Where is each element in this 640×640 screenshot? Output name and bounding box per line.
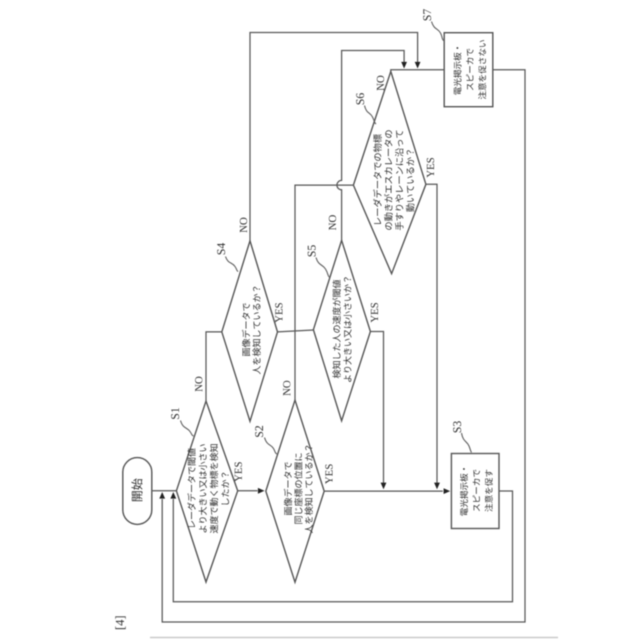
process box S7 [444, 33, 493, 107]
wire S4 NO to S7 join [250, 33, 421, 241]
step label S6 with leader [356, 93, 376, 124]
wire S1 YES to S2 [238, 488, 265, 494]
wire S1 NO to S4 [206, 332, 222, 401]
decision S1 diamond [176, 401, 237, 582]
decision S6 diamond [353, 71, 426, 273]
step label S7 with leader [423, 9, 444, 41]
label S2 NO [283, 381, 290, 396]
S3 text [460, 468, 493, 515]
S4 text [242, 287, 261, 374]
decision S2 diamond [266, 400, 324, 582]
label S4 YES [275, 303, 282, 323]
decision S4 diamond [222, 241, 278, 422]
label S2 YES [325, 464, 332, 484]
step label S2 with leader [255, 426, 277, 454]
wire S2 YES to S3 [324, 488, 450, 494]
label S1 NO [195, 377, 202, 392]
label S4 NO [240, 218, 247, 233]
wire S3 return loop to start junction [170, 491, 512, 602]
wire S7 return loop to start junction [159, 70, 525, 622]
wire S6 YES to S3 join [426, 184, 440, 489]
step label S1 with leader [171, 408, 193, 436]
step label S3 with leader [453, 421, 471, 452]
wire S5 YES to S3 join [370, 332, 386, 490]
figure number [4] [115, 616, 125, 629]
process box S3 [451, 454, 499, 529]
label S6 YES [427, 158, 434, 178]
label S5 YES [371, 303, 378, 323]
S1 text [187, 444, 229, 533]
start terminal 開始 [123, 458, 152, 525]
scan page-edge artifact bottom [150, 637, 558, 639]
label S5 NO [329, 215, 336, 230]
wire S2 NO to S6 [295, 185, 353, 400]
wire S6 NO to S7 [391, 70, 444, 72]
wire S4 YES to S5 [278, 330, 314, 332]
label S1 YES [235, 462, 242, 482]
wire start to S1 [152, 490, 177, 492]
S5 text [332, 277, 351, 382]
S6 text [373, 130, 414, 230]
step label S4 with leader [217, 243, 238, 272]
S7 text [454, 40, 487, 99]
label S6 NO [377, 76, 384, 91]
step label S5 with leader [308, 245, 330, 277]
S2 text [284, 446, 313, 533]
decision S5 diamond [313, 240, 370, 421]
wire S5 NO to S7 join (hops over S2-NO wire) [337, 51, 407, 241]
